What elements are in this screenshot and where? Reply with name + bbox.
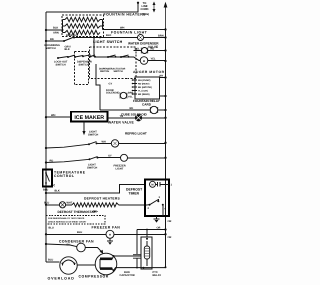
label RD valve <box>151 47 155 50</box>
wire ice maker down arrow <box>82 122 85 136</box>
overload device <box>60 257 77 274</box>
wire heater to timer <box>119 204 148 206</box>
switch grounding <box>64 37 75 42</box>
switch refr light <box>89 142 98 145</box>
solenoid door <box>120 92 127 98</box>
svg-text:YL (AUX): YL (AUX) <box>138 90 148 93</box>
water valve coil <box>135 114 142 121</box>
svg-text:BRN: BRN <box>158 34 164 37</box>
label BLK light <box>106 34 111 37</box>
svg-text:CUBE SOLENOID: CUBE SOLENOID <box>121 112 148 116</box>
fountain heaters dashed box <box>62 15 104 36</box>
svg-text:CONTROL: CONTROL <box>54 174 75 178</box>
ice maker box <box>71 112 108 122</box>
wire valve to bus <box>148 49 167 51</box>
label FOUNTAIN HEATERS <box>104 12 147 16</box>
wire heater return <box>103 28 167 30</box>
wire light switch drop2 <box>96 64 100 110</box>
svg-text:SWITCH: SWITCH <box>114 70 124 73</box>
wire thermostat feed <box>45 204 59 206</box>
svg-text:WH: WH <box>51 114 55 117</box>
svg-text:BLU: BLU <box>43 189 48 192</box>
timer motor <box>150 181 170 187</box>
wire run branch <box>137 228 167 230</box>
wire card to bus a <box>160 74 167 78</box>
label DEFROST HEATERS <box>84 196 120 200</box>
wire freezer light feed <box>45 158 91 163</box>
wire bus bottom <box>165 266 167 268</box>
wire top border <box>46 2 139 12</box>
wire auger to bus <box>148 60 167 62</box>
svg-text:RD: RD <box>130 107 134 110</box>
label SOL <box>135 48 141 51</box>
label RD freezer <box>50 159 54 162</box>
svg-text:REFRIG LIGHT: REFRIG LIGHT <box>125 132 147 136</box>
label FOUNTAIN RELAY CARD <box>133 99 161 106</box>
svg-text:BLK: BLK <box>65 48 70 51</box>
heater H1 <box>65 17 100 21</box>
svg-text:TN: TN <box>120 115 124 118</box>
svg-text:BK (MOTOR): BK (MOTOR) <box>138 86 152 89</box>
svg-text:CORD: CORD <box>141 8 149 11</box>
svg-text:ACTUATOR: ACTUATOR <box>113 67 126 70</box>
label OVERLOAD <box>48 276 75 280</box>
svg-text:BLK: BLK <box>53 26 58 29</box>
node double arrow <box>153 2 156 13</box>
timer switch <box>148 199 164 216</box>
label FREEZER LIGHT <box>114 164 126 170</box>
node line-cord arrow <box>164 2 168 28</box>
label COMPRESSOR <box>79 275 109 279</box>
label GY freezer <box>108 155 112 158</box>
label BLU temp <box>43 189 48 192</box>
wire ice maker feed <box>45 116 71 118</box>
svg-text:YEL: YEL <box>128 96 133 99</box>
wire freezer fan to bus <box>114 233 167 235</box>
label RD feed <box>50 38 54 41</box>
label pin2 <box>148 207 150 210</box>
motor freezer fan <box>106 230 114 238</box>
label GY drop <box>109 82 113 85</box>
wire cap riser <box>136 230 138 255</box>
label CUBE SOLENOID <box>121 112 148 116</box>
wire cube to bus <box>158 109 167 111</box>
label BRN door <box>128 91 133 94</box>
label DOOR SOLENOID <box>106 89 119 95</box>
svg-text:FOUNTAIN HEATERS: FOUNTAIN HEATERS <box>104 12 147 16</box>
solenoid cube <box>150 106 158 113</box>
label FREEZER FAN <box>92 226 121 230</box>
label BU condfan <box>67 244 71 247</box>
svg-text:RD: RD <box>151 47 155 50</box>
label LIGHT SWITCH top <box>93 40 123 44</box>
svg-text:BLK: BLK <box>55 190 60 193</box>
label LOCK-OUT SWITCH <box>54 61 68 67</box>
svg-text:LIGHT SWITCH: LIGHT SWITCH <box>93 40 123 44</box>
svg-text:RD: RD <box>50 159 54 162</box>
svg-text:DISPENSER: DISPENSER <box>99 67 113 70</box>
defrost thermostat symbol <box>59 202 65 208</box>
run capacitor <box>133 255 141 269</box>
label BRN/WHT <box>66 34 78 37</box>
label BLK temp <box>55 190 60 193</box>
svg-text:SWITCH: SWITCH <box>87 166 97 169</box>
label OR timer <box>168 220 172 223</box>
svg-text:YEL: YEL <box>151 58 156 61</box>
freezer fan ground <box>107 238 113 245</box>
svg-text:BR: BR <box>160 74 164 77</box>
svg-text:CONDENSER FAN: CONDENSER FAN <box>59 239 94 243</box>
svg-text:SOLENOID: SOLENOID <box>106 92 119 95</box>
label REFRIG LIGHT <box>125 132 147 136</box>
wire left bus <box>45 12 47 262</box>
svg-text:FOUNTAIN LIGHT: FOUNTAIN LIGHT <box>111 31 148 35</box>
wire heater feed <box>45 29 63 31</box>
motor condenser fan <box>77 243 86 252</box>
wire refr light feed <box>45 143 90 149</box>
wire freezer fan feed <box>45 233 106 235</box>
ptc relay box <box>141 237 152 269</box>
wire cond fan feed <box>45 243 77 247</box>
svg-text:RD: RD <box>50 38 54 41</box>
wire heater left riser <box>62 20 66 33</box>
svg-text:WHT: WHT <box>67 202 73 205</box>
label DISPENSER SWITCH <box>77 61 92 67</box>
label DEFROST THERMOSTAT <box>58 210 99 214</box>
svg-text:RD (HEAT): RD (HEAT) <box>138 83 150 86</box>
wire auger feed <box>134 57 141 61</box>
label LIGHT SWITCH frz <box>87 163 97 169</box>
label OR bus1 <box>168 236 172 239</box>
label YEL door <box>128 96 133 99</box>
wire lamp to bus <box>144 36 167 38</box>
svg-text:BLU: BLU <box>77 231 82 234</box>
label BRN lamp <box>158 34 164 37</box>
label BLU frzfan2 <box>77 231 82 234</box>
label WATER DISPENSER VALVE <box>128 42 159 49</box>
heater H3 <box>65 30 100 34</box>
wire comp run <box>112 256 120 259</box>
wire ice maker out <box>108 117 135 119</box>
svg-text:SWITCH: SWITCH <box>100 70 110 73</box>
switch freezer light <box>90 157 99 160</box>
lamp refr light <box>97 140 119 147</box>
svg-text:CARD: CARD <box>142 103 152 107</box>
svg-text:SOL: SOL <box>135 48 141 51</box>
temperature control box <box>43 170 55 187</box>
svg-text:OR: OR <box>168 236 172 239</box>
wire grounding feed <box>45 40 65 42</box>
svg-text:COMPRESSOR: COMPRESSOR <box>79 275 109 279</box>
label RUN CAPACITOR <box>120 271 135 277</box>
svg-text:M: M <box>143 60 145 63</box>
svg-text:SWITCH: SWITCH <box>88 134 98 137</box>
svg-text:FOR SERVICEABILITY TEST POINTS: FOR SERVICEABILITY TEST POINTS <box>48 217 85 220</box>
label WH refr <box>102 141 106 144</box>
light switch dashed box <box>90 47 137 79</box>
label YEL auger <box>151 58 156 61</box>
svg-text:FREEZER FAN: FREEZER FAN <box>92 226 121 230</box>
svg-text:ICE MAKER: ICE MAKER <box>74 115 104 121</box>
fountain relay card box <box>132 77 160 99</box>
wire watervalve to bus <box>142 117 167 119</box>
svg-text:M: M <box>109 234 111 237</box>
motor auger <box>140 57 148 65</box>
label GROUNDING SWITCH <box>44 44 60 50</box>
svg-text:OR: OR <box>168 220 172 223</box>
svg-text:LIGHT: LIGHT <box>116 167 124 170</box>
compressor <box>95 253 117 275</box>
wire cond fan out <box>85 248 103 254</box>
label WH icemaker <box>51 114 55 117</box>
svg-text:WATER VALVE: WATER VALVE <box>108 120 134 124</box>
defrost heater element <box>66 203 119 207</box>
svg-text:BRN/WHT: BRN/WHT <box>66 34 78 37</box>
wire switch drop <box>93 37 95 57</box>
wire right bus <box>165 28 167 267</box>
svg-text:BLU: BLU <box>48 258 53 261</box>
svg-text:CAPACITOR: CAPACITOR <box>120 274 135 277</box>
svg-text:RELAY: RELAY <box>153 274 162 277</box>
label switch names <box>99 67 126 73</box>
svg-text:GY: GY <box>109 82 113 85</box>
label TEMPERATURE CONTROL <box>54 171 86 179</box>
svg-text:WH: WH <box>120 26 124 29</box>
lamp freezer light <box>98 154 128 161</box>
wire timer feed <box>45 184 145 194</box>
label TO LINE CORD <box>141 2 150 16</box>
label pin1 <box>171 183 173 186</box>
heater H2 <box>65 24 100 28</box>
label CONDENSER FAN <box>59 239 94 243</box>
label OR frzfan <box>157 227 161 230</box>
svg-text:TIMER: TIMER <box>129 192 140 196</box>
label RD cube <box>130 107 134 110</box>
svg-text:SWITCH: SWITCH <box>46 47 56 50</box>
label WHT defr <box>67 202 73 205</box>
wire freezer lamp to bus <box>128 157 167 159</box>
label FOUNTAIN LIGHT <box>111 31 148 35</box>
label GRY/BLK <box>65 45 71 51</box>
dispenser dashed box <box>75 52 89 85</box>
label WH return <box>120 26 124 29</box>
svg-text:DEFROST THERMOSTAT: DEFROST THERMOSTAT <box>58 210 96 214</box>
label LIGHT SWITCH refr <box>88 131 98 137</box>
label PTC RELAY <box>153 271 162 277</box>
label BLU defr <box>44 201 49 204</box>
svg-text:BRN: BRN <box>128 91 133 94</box>
wire heater right riser <box>100 20 103 30</box>
label pin4 <box>164 208 166 211</box>
wire card to bus b <box>160 95 167 97</box>
svg-text:AUGER MOTOR: AUGER MOTOR <box>133 70 165 74</box>
defrost note box <box>46 216 105 225</box>
svg-text:OVERLOAD: OVERLOAD <box>48 276 75 280</box>
svg-text:CHECK SERVICE DATA SHEET CHART: CHECK SERVICE DATA SHEET CHART <box>48 221 87 224</box>
wire fountain light <box>74 37 138 39</box>
wire comp start <box>112 268 165 271</box>
defrost timer box <box>145 180 169 217</box>
label WATER VALVE <box>108 120 134 124</box>
label BLU frzfan1 <box>49 227 54 230</box>
svg-text:M: M <box>151 184 153 187</box>
label TN <box>120 115 124 118</box>
wire cube feed <box>100 109 150 111</box>
label BLU ovl <box>48 258 53 261</box>
wire ovl to comp <box>77 264 95 266</box>
label DEFROST TIMER <box>126 188 143 196</box>
switch chain <box>57 55 134 59</box>
wire refr lamp to bus <box>119 142 167 144</box>
svg-text:WH (PUMP): WH (PUMP) <box>138 79 151 82</box>
svg-text:BLK: BLK <box>106 34 111 37</box>
svg-text:ORN: ORN <box>53 32 59 35</box>
label AUGER MOTOR <box>133 70 165 74</box>
svg-text:DEFROST HEATERS: DEFROST HEATERS <box>84 196 120 200</box>
wire ptc left pin <box>120 255 141 257</box>
svg-text:SWITCH: SWITCH <box>56 63 66 66</box>
label ORN feed <box>53 32 59 35</box>
label pin3 <box>159 196 161 199</box>
svg-text:BR (SENS): BR (SENS) <box>138 93 150 96</box>
svg-text:SWITCH: SWITCH <box>79 63 89 66</box>
wire valve feed <box>134 50 142 52</box>
wire ptc riser <box>146 229 148 237</box>
svg-text:BLU: BLU <box>49 227 54 230</box>
timer ground <box>154 216 160 223</box>
solenoid dispenser valve <box>141 48 148 54</box>
label BLK feed <box>53 26 58 29</box>
lamp fountain light <box>138 35 144 41</box>
wire overload feed <box>46 261 60 263</box>
